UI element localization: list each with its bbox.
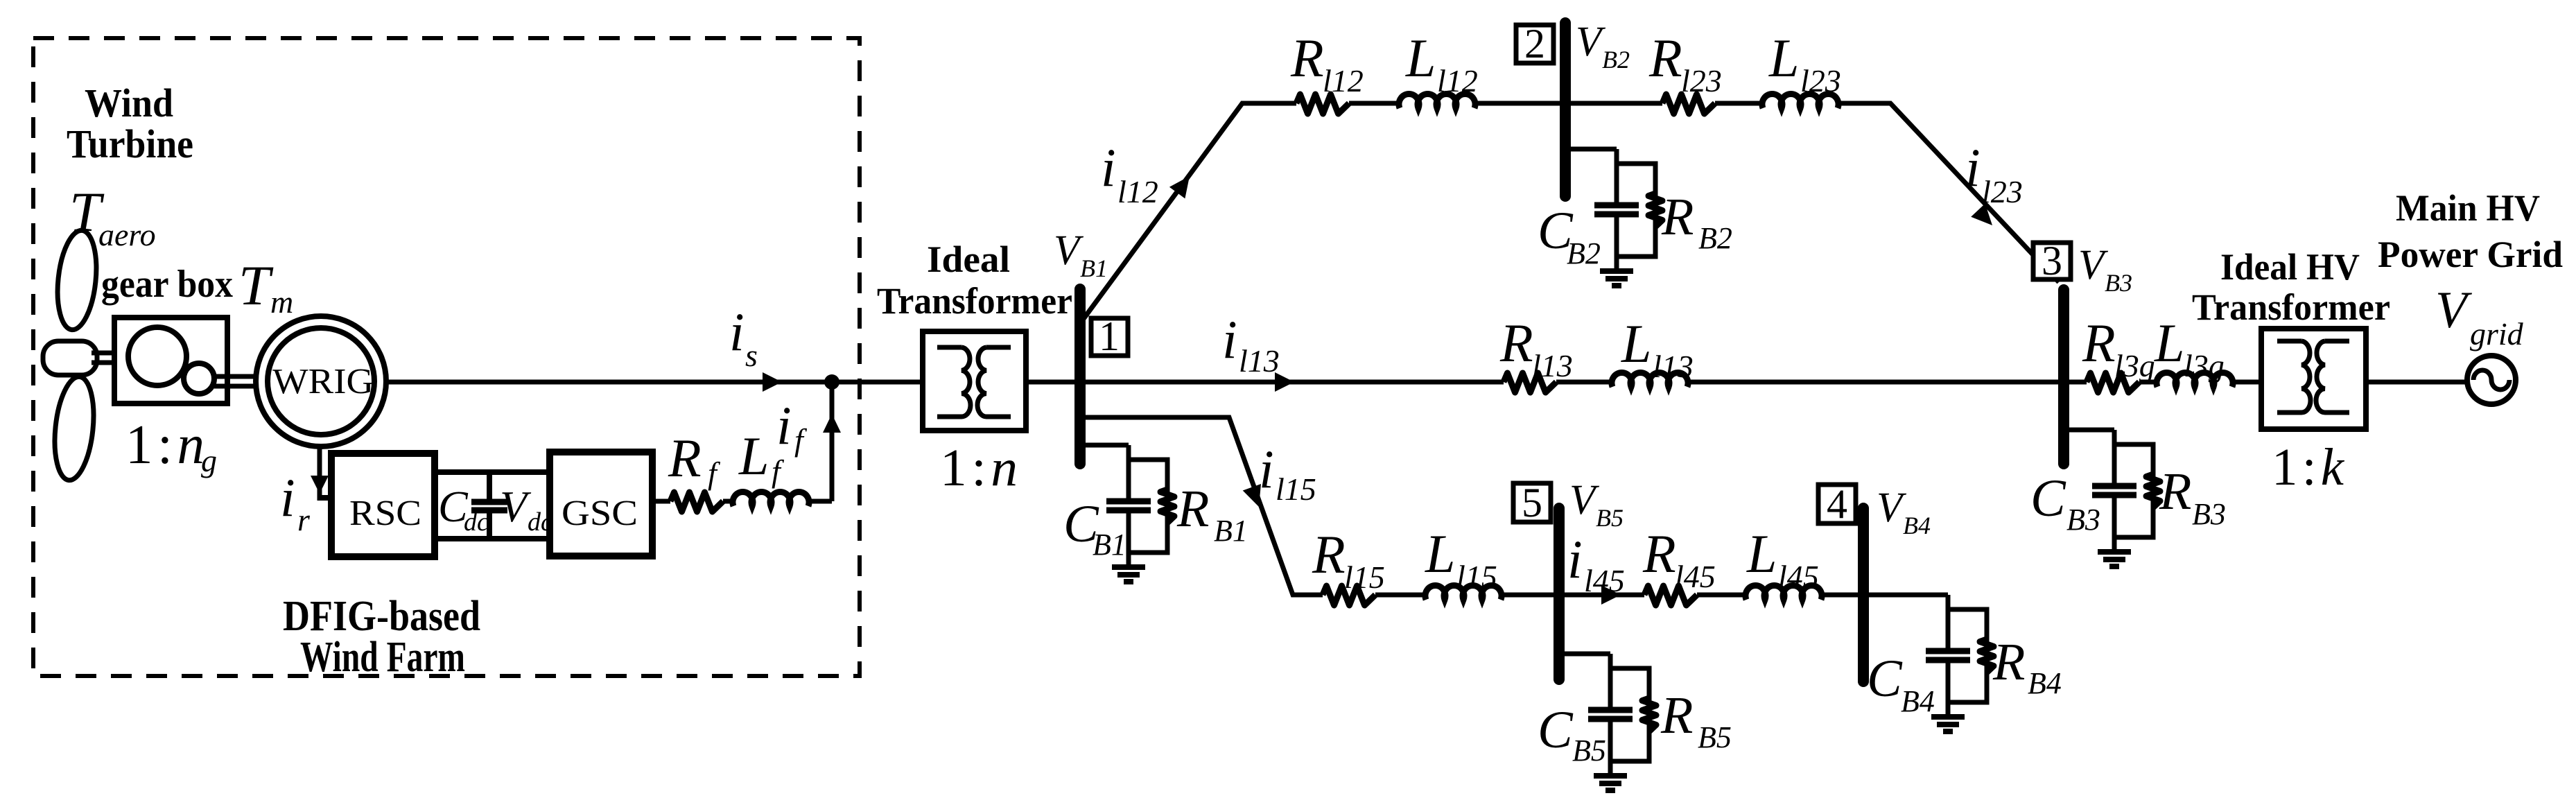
inductor L_l3g <box>2157 373 2233 387</box>
svg-text:i: i <box>729 302 745 362</box>
svg-text:1: 1 <box>1099 313 1120 359</box>
svg-text:4: 4 <box>1827 481 1847 527</box>
svg-text:3: 3 <box>2042 238 2062 284</box>
svg-text:B5: B5 <box>1698 720 1732 754</box>
svg-text:GSC: GSC <box>562 494 638 533</box>
svg-text:R: R <box>1176 480 1209 538</box>
svg-text:B1: B1 <box>1093 528 1126 562</box>
svg-text:L: L <box>738 426 769 486</box>
wind turbine hub <box>43 341 97 375</box>
node box 5 <box>1513 483 1551 522</box>
bus bar 5 <box>1554 508 1565 679</box>
inductor L_l13 <box>1612 373 1688 387</box>
wire rotor i_r <box>317 446 322 501</box>
svg-text:l13: l13 <box>1532 348 1573 383</box>
wire line 2-3 <box>1838 103 2059 282</box>
wire B3 stub <box>2064 428 2114 433</box>
capacitor CB1 <box>1126 445 1131 498</box>
svg-text:C: C <box>2030 469 2066 528</box>
svg-text:R: R <box>2159 462 2191 521</box>
svg-text:B5: B5 <box>1572 734 1606 767</box>
svg-text:L: L <box>1768 28 1799 88</box>
bus bar 1 <box>1074 289 1086 464</box>
inductor L_f <box>733 492 809 506</box>
wire B2 stub <box>1565 147 1617 152</box>
wire B5 R-branch loop <box>1610 668 1649 761</box>
svg-text:l45: l45 <box>1778 559 1819 594</box>
wind turbine blade lower <box>50 375 98 483</box>
svg-text:f: f <box>708 455 721 491</box>
svg-text:i: i <box>1567 529 1583 589</box>
wire B5 stub <box>1559 652 1610 657</box>
svg-text:1 : k: 1 : k <box>2272 438 2344 496</box>
transformer T2 HV <box>2261 329 2366 429</box>
svg-text:C: C <box>1538 701 1574 759</box>
svg-text:WRIG: WRIG <box>272 362 374 401</box>
svg-text:T: T <box>238 254 274 317</box>
ground B5 <box>1608 761 1613 776</box>
svg-text:i: i <box>1101 137 1116 198</box>
svg-text:dc: dc <box>528 507 552 537</box>
svg-text:R: R <box>2082 313 2116 373</box>
resistor R_l23 <box>1662 94 1715 114</box>
svg-text:Ideal: Ideal <box>927 238 1010 280</box>
wire B1 stub <box>1080 443 1129 448</box>
generator WRIG <box>256 316 386 446</box>
svg-text:L: L <box>2154 313 2184 373</box>
arrow i_r <box>311 476 329 494</box>
arrow i_l13 <box>1275 372 1294 392</box>
wire dc-link rails <box>435 469 550 475</box>
inductor L_l12 <box>1399 94 1475 108</box>
resistor R_l15 <box>1323 586 1375 605</box>
svg-text:Turbine: Turbine <box>67 121 193 166</box>
svg-text:C: C <box>1867 650 1903 708</box>
svg-text:f: f <box>772 453 785 489</box>
svg-text:i: i <box>776 395 792 455</box>
svg-text:l15: l15 <box>1344 559 1385 595</box>
transformer T1 ideal <box>923 331 1026 431</box>
svg-text:B1: B1 <box>1214 514 1248 548</box>
node box 3 <box>2033 243 2071 279</box>
svg-text:Ideal HV: Ideal HV <box>2220 246 2360 288</box>
node box 4 <box>1818 485 1856 523</box>
svg-text:V: V <box>2435 281 2473 339</box>
svg-text:grid: grid <box>2470 316 2524 352</box>
inductor L_l23 <box>1762 94 1838 108</box>
svg-text:2: 2 <box>1524 21 1545 67</box>
svg-text:B3: B3 <box>2066 503 2100 537</box>
wire HV transformer to grid <box>2366 380 2467 385</box>
arrow i_l15 <box>1243 484 1261 507</box>
wire B2 R-branch loop <box>1617 164 1655 257</box>
svg-text:r: r <box>297 502 311 537</box>
arrow i_l23 <box>1971 204 1992 225</box>
svg-text:Main HV: Main HV <box>2396 187 2540 229</box>
wire line 1-2 diagonal <box>1081 103 1296 322</box>
svg-text:l45: l45 <box>1675 559 1716 594</box>
resistor R_l45 <box>1644 586 1697 605</box>
bus bar 3 <box>2058 290 2069 464</box>
svg-text:Wind Farm: Wind Farm <box>300 634 465 681</box>
resistor R_l13 <box>1504 373 1556 392</box>
svg-text:B4: B4 <box>1901 684 1935 718</box>
inductor L_l45 <box>1746 586 1822 600</box>
svg-text:l13: l13 <box>1653 349 1694 384</box>
resistor RB2 <box>1648 193 1662 227</box>
inductor L_l15 <box>1425 586 1502 600</box>
node junction stator/GSC <box>824 374 839 390</box>
svg-text:l23: l23 <box>1800 63 1841 98</box>
node box 2 <box>1516 25 1554 63</box>
svg-text:L: L <box>1746 523 1777 584</box>
wire shaft high-speed <box>214 374 257 379</box>
svg-text:i: i <box>1259 439 1274 499</box>
wire B4 R-branch loop <box>1948 609 1987 702</box>
resistor R_l3g <box>2087 373 2139 392</box>
arrow i_l45 <box>1601 585 1621 605</box>
svg-text:R: R <box>1499 313 1533 373</box>
arrow i_l12 <box>1169 176 1190 198</box>
resistor R_f <box>670 492 723 512</box>
resistor RB5 <box>1642 698 1656 731</box>
svg-text:L: L <box>1405 28 1436 88</box>
svg-text:B4: B4 <box>1903 512 1931 539</box>
resistor RB4 <box>1980 639 1994 672</box>
svg-text:aero: aero <box>98 217 156 252</box>
wire B4 stub <box>1863 593 1948 598</box>
arrow i_s <box>763 372 782 392</box>
ground B1 <box>1126 553 1131 567</box>
svg-text:B2: B2 <box>1567 236 1601 270</box>
capacitor CB2 <box>1615 149 1619 202</box>
svg-text:l12: l12 <box>1117 174 1158 209</box>
svg-text:g: g <box>201 443 217 478</box>
svg-text:L: L <box>1621 313 1651 374</box>
wire T1 to bus1 <box>1026 380 1081 385</box>
svg-text:l13: l13 <box>1239 343 1280 379</box>
svg-text:Wind: Wind <box>85 80 173 125</box>
svg-text:B2: B2 <box>1602 46 1630 73</box>
svg-text:l15: l15 <box>1456 559 1497 594</box>
svg-text:R: R <box>1661 188 1694 246</box>
capacitor CB5 <box>1608 654 1613 707</box>
svg-text:R: R <box>1660 686 1693 745</box>
svg-text:l23: l23 <box>1982 174 2023 209</box>
ground B2 <box>1615 257 1619 271</box>
DFIG wind farm dashed boundary box <box>33 38 860 676</box>
resistor RB3 <box>2146 474 2160 507</box>
svg-text:l12: l12 <box>1437 63 1478 98</box>
svg-text:R: R <box>1312 524 1346 584</box>
wire line 1-5 <box>1080 417 1323 595</box>
svg-text:l3g: l3g <box>2114 348 2155 383</box>
svg-text:R: R <box>1290 28 1324 88</box>
resistor RB1 <box>1160 489 1174 523</box>
bus bar 2 <box>1560 23 1571 196</box>
svg-text:i: i <box>1222 309 1237 370</box>
wire i_f riser <box>830 382 835 501</box>
source V_grid <box>2467 356 2516 404</box>
svg-text:R: R <box>1642 523 1676 584</box>
converter GSC <box>550 452 652 556</box>
ground B3 <box>2112 537 2117 552</box>
capacitor CB3 <box>2112 430 2117 483</box>
svg-text:f: f <box>794 422 808 458</box>
svg-text:l12: l12 <box>1323 63 1364 98</box>
node box 1 <box>1091 318 1128 356</box>
capacitor CB4 <box>1946 595 1951 648</box>
svg-text:B2: B2 <box>1698 221 1732 255</box>
svg-text:s: s <box>745 338 758 373</box>
gear box body <box>114 318 227 403</box>
svg-text:B4: B4 <box>2028 666 2062 700</box>
svg-text:Transformer: Transformer <box>877 280 1072 322</box>
svg-text:dc: dc <box>464 507 489 537</box>
svg-text:Transformer: Transformer <box>2192 286 2390 328</box>
svg-text:i: i <box>280 467 295 528</box>
svg-text:l3g: l3g <box>2184 348 2225 383</box>
wire B1 R-branch loop <box>1129 460 1167 553</box>
wind turbine blade upper <box>53 229 101 332</box>
svg-text:DFIG-based: DFIG-based <box>283 593 480 640</box>
wire B3 R-branch loop <box>2114 444 2153 537</box>
svg-text:l15: l15 <box>1276 471 1316 507</box>
svg-text:l23: l23 <box>1681 63 1722 98</box>
wire GSC output <box>652 499 670 504</box>
svg-text:R: R <box>1992 633 2025 691</box>
svg-text:B3: B3 <box>2105 269 2132 297</box>
wire bus3 to HV transformer <box>2064 380 2087 385</box>
svg-text:1 : n: 1 : n <box>125 415 204 476</box>
svg-text:m: m <box>270 284 293 320</box>
svg-text:B5: B5 <box>1596 504 1624 532</box>
svg-text:gear box: gear box <box>101 263 233 306</box>
arrow i_f <box>823 414 841 433</box>
svg-text:B1: B1 <box>1080 254 1108 282</box>
svg-text:i: i <box>1965 137 1981 198</box>
resistor R_l12 <box>1296 94 1349 114</box>
wire shaft low-speed <box>92 351 130 356</box>
svg-text:R: R <box>1648 28 1682 88</box>
capacitor C_dc <box>487 472 492 502</box>
svg-text:1 : n: 1 : n <box>940 439 1018 497</box>
svg-text:B3: B3 <box>2192 497 2226 531</box>
converter RSC <box>331 453 435 557</box>
bus bar 4 <box>1858 508 1869 682</box>
svg-text:Power Grid: Power Grid <box>2378 234 2563 275</box>
svg-text:L: L <box>1425 523 1455 584</box>
svg-text:R: R <box>668 428 702 488</box>
svg-text:RSC: RSC <box>349 494 421 533</box>
wire stator line <box>386 380 923 385</box>
ground B4 <box>1946 702 1951 717</box>
wire line 1-3 <box>1080 380 1504 385</box>
svg-text:5: 5 <box>1522 480 1542 526</box>
